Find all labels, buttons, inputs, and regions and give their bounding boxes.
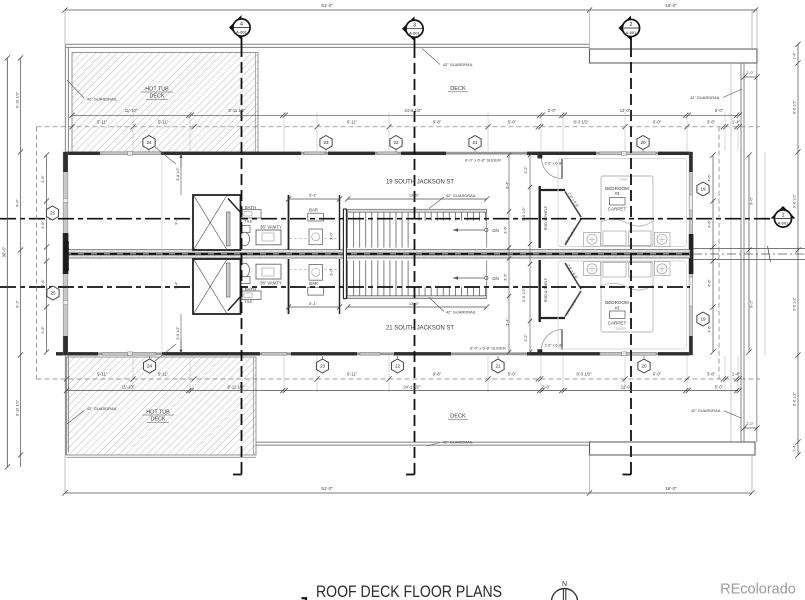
lower bar wall [339, 259, 341, 314]
svg-text:8'-0" x 6'-8" SLIDER: 8'-0" x 6'-8" SLIDER [470, 345, 506, 350]
svg-text:21: 21 [472, 140, 478, 145]
svg-text:9'-8": 9'-8" [433, 119, 442, 124]
svg-text:5'-0": 5'-0" [508, 119, 517, 124]
svg-text:5'-1": 5'-1" [309, 193, 318, 198]
upper shaft X brace [194, 196, 227, 249]
svg-text:6'-11": 6'-11" [347, 372, 358, 377]
upper vanity [256, 230, 281, 245]
upper nightstand left [584, 233, 601, 247]
svg-text:DECK: DECK [450, 413, 466, 419]
left dim line 3 [46, 155, 48, 352]
svg-text:9'-0": 9'-0" [749, 197, 754, 205]
upper stair treads left [347, 212, 349, 247]
upper entry door jamb [537, 155, 541, 159]
upper bar dim [289, 198, 340, 200]
svg-text:3'-8 1/2": 3'-8 1/2" [176, 326, 180, 340]
lower shaft dim [180, 314, 182, 352]
right 2ft dim bottom [744, 427, 757, 429]
top-right deck bench [590, 49, 758, 63]
svg-text:A-601: A-601 [778, 220, 789, 225]
upper shaft-bath wall [227, 212, 231, 246]
window tag 24 leader arrow [155, 147, 176, 164]
upper nightstand right [655, 233, 671, 247]
lower shaft-bath wall [227, 263, 231, 297]
svg-text:23: 23 [323, 140, 329, 145]
lower vanity [256, 264, 281, 279]
upper bedroom bed [601, 176, 653, 246]
svg-text:CARPET: CARPET [608, 206, 627, 211]
svg-text:HOT TUB: HOT TUB [146, 410, 170, 416]
svg-text:4'-6": 4'-6" [41, 326, 45, 334]
party wall center beam [65, 253, 690, 256]
upper unit centerline [0, 218, 770, 220]
lower toilet [240, 277, 251, 284]
right setback dashed line [718, 127, 720, 379]
svg-text:25: 25 [50, 211, 56, 216]
upper closet bifold doors [565, 192, 581, 218]
svg-text:25: 25 [50, 291, 56, 296]
upper stair DN arrow [453, 229, 484, 231]
svg-text:9'-4": 9'-4" [506, 181, 510, 189]
interior dim line 3-2 [529, 155, 531, 352]
svg-text:8'-0" x 6'-8" SLIDER: 8'-0" x 6'-8" SLIDER [465, 158, 501, 163]
bottom deck guardrail [256, 441, 590, 443]
svg-text:12'-0": 12'-0" [621, 384, 632, 389]
svg-text:DECK: DECK [150, 94, 165, 100]
svg-text:5'-11": 5'-11" [97, 119, 108, 124]
svg-text:4'-6": 4'-6" [708, 279, 712, 287]
upper bar wall [339, 195, 341, 250]
top wall windows [100, 152, 161, 155]
left deck edge upper [64, 44, 66, 152]
lower bedroom carpet border [558, 261, 687, 349]
top wall base [65, 152, 690, 155]
bottom wall windows [102, 352, 156, 355]
lower bath door [228, 295, 242, 311]
window tag hexagon 23 bottom [316, 359, 328, 373]
lower plumbing dashed line [289, 269, 339, 271]
upper shaft dim [180, 155, 182, 195]
svg-text:2'-6" x 6'-8": 2'-6" x 6'-8" [544, 162, 563, 166]
svg-text:ROOF DECK FLOOR PLANS: ROOF DECK FLOOR PLANS [316, 582, 502, 600]
svg-text:4'-6": 4'-6" [708, 220, 712, 228]
svg-text:A-601: A-601 [236, 29, 247, 34]
bottom dim row 2 [37, 378, 761, 380]
svg-text:12'-0": 12'-0" [620, 108, 631, 113]
svg-text:51'-0": 51'-0" [321, 486, 333, 491]
svg-text:16'-0": 16'-0" [665, 3, 677, 8]
svg-text:9'-2": 9'-2" [14, 300, 19, 308]
svg-text:DECK: DECK [151, 417, 166, 423]
right dim line 1 [712, 155, 714, 352]
section marker 2/A-601 [619, 16, 640, 41]
lower nightstand right [655, 262, 671, 276]
svg-text:2'-0": 2'-0" [746, 422, 754, 426]
lower closet wall [539, 260, 541, 322]
svg-text:3'-6": 3'-6" [504, 273, 508, 281]
bottom wall slider opening [451, 353, 527, 355]
top dim extension lines [64, 10, 66, 44]
svg-text:9'-8": 9'-8" [433, 372, 442, 377]
svg-text:4'-6": 4'-6" [41, 221, 45, 229]
svg-text:5'-1": 5'-1" [309, 301, 318, 306]
svg-text:9'-4": 9'-4" [506, 318, 510, 326]
wall tag hexagon 19 lower [697, 312, 709, 326]
svg-text:9'-10 1/2": 9'-10 1/2" [14, 399, 19, 416]
right wall window panes [689, 195, 692, 210]
svg-text:20: 20 [640, 140, 646, 145]
svg-text:3'-8": 3'-8" [707, 372, 716, 377]
upper closet wall [539, 186, 541, 248]
svg-text:TILE: TILE [244, 299, 253, 304]
north arrow [552, 589, 578, 600]
svg-text:DN: DN [492, 276, 498, 281]
svg-text:1'-4": 1'-4" [732, 372, 741, 377]
section line C [630, 36, 632, 46]
svg-text:2'-0": 2'-0" [746, 71, 754, 75]
left dim line 2 [20, 58, 22, 467]
svg-text:ROD & SHELF: ROD & SHELF [544, 205, 548, 230]
svg-text:N: N [562, 581, 567, 588]
svg-text:3'-6": 3'-6" [504, 226, 508, 234]
svg-text:3'-0": 3'-0" [330, 232, 334, 240]
upper bath door [228, 199, 242, 215]
window tag hexagon 24 bottom [143, 359, 155, 373]
window tag hexagon 20 top [637, 136, 649, 150]
svg-text:20: 20 [641, 364, 647, 369]
svg-text:BAR: BAR [309, 281, 318, 286]
svg-text:24'-1 1/2": 24'-1 1/2" [403, 384, 421, 389]
svg-text:2'-0": 2'-0" [542, 384, 551, 389]
window tag 24 leader arrow bottom [155, 344, 176, 361]
interior dim line 9-4 [508, 155, 510, 352]
window tag hexagon 23 top [320, 136, 332, 150]
bottom wall base [56, 352, 690, 355]
svg-text:13'-9": 13'-9" [409, 301, 420, 306]
svg-text:5'-6 1/2": 5'-6 1/2" [522, 287, 526, 302]
svg-text:2'-0": 2'-0" [548, 108, 557, 113]
svg-text:42" GUARDRAIL: 42" GUARDRAIL [690, 95, 721, 100]
upper plumbing dashed line [289, 238, 339, 240]
svg-text:6'-0": 6'-0" [653, 119, 662, 124]
bottom dim extension lines [64, 456, 66, 494]
svg-text:24'-9 1/2": 24'-9 1/2" [404, 108, 422, 113]
svg-text:8'-3 1/2": 8'-3 1/2" [577, 372, 593, 377]
window tag hexagon 22 bottom [391, 359, 403, 373]
svg-text:9'-10 1/2": 9'-10 1/2" [14, 91, 19, 108]
svg-text:9'-4": 9'-4" [175, 217, 179, 225]
right wall dark block [689, 234, 694, 274]
svg-text:8'-3 1/2": 8'-3 1/2" [574, 119, 590, 124]
left wall dark block [63, 233, 69, 274]
lower entry door [542, 330, 563, 351]
svg-text:BEDROOM: BEDROOM [605, 300, 629, 305]
section line B [414, 37, 416, 47]
bottom overall dim line [65, 492, 752, 494]
svg-text:A-601: A-601 [409, 31, 420, 36]
svg-text:1'-4": 1'-4" [732, 119, 741, 124]
upper stair dim [348, 198, 487, 200]
upper shaft box [193, 195, 241, 250]
svg-text:42" GUARDRAIL: 42" GUARDRAIL [691, 408, 722, 413]
svg-text:19: 19 [700, 317, 706, 322]
svg-text:1'-4": 1'-4" [793, 52, 797, 60]
svg-text:5'-11": 5'-11" [158, 372, 169, 377]
svg-text:42" GUARDRAIL: 42" GUARDRAIL [443, 62, 474, 67]
party wall band [65, 250, 690, 258]
upper entry door [542, 158, 563, 179]
section marker 4/A-601 [229, 15, 250, 40]
lower stair treads left [347, 260, 349, 295]
svg-text:9'-4": 9'-4" [175, 281, 179, 289]
svg-text:3'-8 1/2": 3'-8 1/2" [176, 167, 180, 181]
top dim row 2 [37, 126, 761, 128]
svg-text:42" GUARDRAIL: 42" GUARDRAIL [87, 406, 118, 411]
svg-text:8'-6 1/2": 8'-6 1/2" [793, 99, 797, 114]
svg-text:16'-0": 16'-0" [665, 486, 677, 491]
right 2ft dim top [744, 76, 757, 78]
svg-text:21: 21 [495, 364, 501, 369]
svg-text:19 SOUTH JACKSON ST: 19 SOUTH JACKSON ST [386, 178, 454, 185]
svg-text:KING: KING [620, 177, 628, 181]
svg-text:6'-11": 6'-11" [347, 119, 358, 124]
svg-text:4'-6": 4'-6" [41, 175, 45, 183]
svg-text:REcolorado: REcolorado [720, 582, 796, 598]
left wall window panes [63, 199, 68, 203]
svg-text:9'-0": 9'-0" [14, 199, 19, 207]
svg-text:42" GUARDRAIL: 42" GUARDRAIL [443, 440, 474, 445]
svg-text:9'-6 1/2": 9'-6 1/2" [793, 193, 797, 208]
svg-text:8'-11 1/2": 8'-11 1/2" [228, 384, 245, 389]
lower closet bifold doors [565, 291, 581, 317]
window tag hexagon 22 top [390, 136, 402, 150]
upper bath tub [242, 210, 261, 219]
upper toilet [240, 226, 251, 233]
top dim extension verticals [132, 112, 134, 151]
svg-text:5'-0": 5'-0" [715, 108, 724, 113]
svg-text:3'-2": 3'-2" [524, 334, 528, 342]
svg-text:DECK: DECK [450, 86, 466, 92]
top wall dark segments [65, 152, 100, 155]
svg-text:1'-4": 1'-4" [793, 444, 797, 452]
top dim row 1 [72, 114, 738, 116]
lower stair side wall [343, 209, 346, 299]
svg-text:11'-10": 11'-10" [125, 108, 138, 113]
window tag hexagon 20 bottom [638, 359, 650, 373]
window tag hexagon 21 top [469, 136, 481, 150]
right wall base [689, 152, 692, 355]
right dim line 2 [748, 155, 750, 352]
right deck guardrail [740, 63, 742, 442]
svg-text:36'-6": 36'-6" [1, 246, 6, 257]
hot tub deck hatch top-left [72, 53, 258, 153]
right dim line 3 [797, 44, 799, 455]
bottom dim row 1 [67, 390, 739, 392]
wall tag hexagon 25 lower [47, 286, 59, 300]
lower bar dim [289, 306, 340, 308]
svg-text:2'-6" x 6'-8": 2'-6" x 6'-8" [544, 344, 563, 348]
window tag hexagon 21 bottom [492, 359, 504, 373]
svg-text:42" GUARDRAIL: 42" GUARDRAIL [446, 310, 477, 315]
svg-text:9'-6 1/2": 9'-6 1/2" [793, 296, 797, 311]
svg-text:#3: #3 [615, 191, 620, 196]
svg-text:6'-0": 6'-0" [653, 372, 662, 377]
svg-text:24: 24 [147, 364, 153, 369]
svg-text:5'-11": 5'-11" [97, 372, 108, 377]
top wall slider opening [446, 152, 527, 154]
lower shaft X brace [194, 260, 227, 313]
svg-text:24: 24 [146, 140, 152, 145]
svg-text:3'-8": 3'-8" [707, 119, 716, 124]
svg-text:5'-0": 5'-0" [715, 384, 724, 389]
bottom wall dark segments [56, 352, 98, 355]
party wall right extension [693, 248, 805, 250]
svg-text:3: 3 [413, 23, 416, 29]
svg-text:2: 2 [630, 22, 633, 28]
lower stair DN arrow [453, 277, 484, 279]
svg-text:3'-0": 3'-0" [330, 268, 334, 276]
svg-text:8'-11 1/2": 8'-11 1/2" [229, 108, 246, 113]
svg-text:CARPET: CARPET [608, 321, 627, 326]
svg-text:4'-6": 4'-6" [41, 279, 45, 287]
upper bedroom carpet border [558, 159, 687, 247]
right deck inner line [730, 63, 732, 442]
svg-text:36" VANITY: 36" VANITY [260, 224, 282, 229]
top deck guardrail [66, 43, 590, 45]
svg-text:11'-10": 11'-10" [122, 384, 135, 389]
left deck edge lower [64, 355, 66, 456]
section line A [241, 36, 243, 46]
svg-text:42" GUARDRAIL: 42" GUARDRAIL [87, 97, 118, 102]
svg-text:#3: #3 [615, 305, 620, 310]
lower stair treads right [418, 287, 420, 295]
svg-text:22: 22 [393, 140, 399, 145]
upper bath walls [288, 195, 290, 250]
svg-text:19: 19 [700, 187, 706, 192]
svg-text:36" VANITY: 36" VANITY [260, 280, 282, 285]
svg-text:4'-6": 4'-6" [708, 174, 712, 182]
window tag hexagon 24 top [143, 136, 155, 150]
top overall dim line [65, 9, 757, 11]
svg-text:5'-11": 5'-11" [158, 119, 169, 124]
svg-text:QUEEN: QUEEN [616, 326, 627, 330]
lower bath tub [242, 291, 261, 300]
interior extension line [161, 156, 163, 353]
svg-text:21 SOUTH JACKSON ST: 21 SOUTH JACKSON ST [386, 324, 454, 331]
svg-text:A-601: A-601 [626, 30, 637, 35]
bottom dim extension verticals [132, 356, 134, 392]
title scale mark [302, 598, 307, 600]
lower bedroom bed [601, 262, 653, 332]
svg-text:DN: DN [492, 228, 498, 233]
svg-text:8'-6 1/2": 8'-6 1/2" [793, 391, 797, 406]
lower shaft box [193, 259, 241, 314]
bottom-right deck bench [590, 442, 756, 455]
svg-text:13'-9": 13'-9" [409, 193, 420, 198]
svg-text:51'-0": 51'-0" [321, 3, 333, 8]
svg-text:BAR: BAR [309, 207, 318, 212]
svg-text:5'-0": 5'-0" [508, 372, 517, 377]
svg-text:3'-2": 3'-2" [524, 166, 528, 174]
svg-text:22: 22 [395, 364, 401, 369]
svg-text:42" GUARDRAIL: 42" GUARDRAIL [446, 193, 477, 198]
svg-text:4: 4 [240, 22, 243, 28]
svg-text:ROD & SHELF: ROD & SHELF [544, 277, 548, 302]
svg-text:HOT TUB: HOT TUB [145, 87, 169, 93]
lower stair dim [348, 306, 487, 308]
lower bath walls [288, 259, 290, 314]
left wall base [63, 152, 68, 355]
svg-text:4'-6": 4'-6" [708, 325, 712, 333]
lower nightstand left [584, 262, 601, 276]
lower unit centerline [0, 286, 690, 288]
wall tag hexagon 19 upper [697, 182, 709, 196]
section marker 3/A-601 [402, 16, 423, 41]
upper stair guardrail [348, 209, 487, 212]
left setback dashed line [36, 127, 38, 379]
section marker 1/A-601 [771, 206, 796, 227]
svg-text:5'-6 1/2": 5'-6 1/2" [522, 206, 526, 221]
left overall dim line [6, 58, 8, 467]
svg-text:23: 23 [320, 364, 326, 369]
svg-text:1: 1 [782, 213, 785, 219]
lower entry door jamb [537, 349, 541, 353]
hot tub deck hatch bottom-left [67, 357, 257, 455]
svg-text:9'-2": 9'-2" [749, 300, 754, 308]
right deck edge [756, 63, 758, 442]
wall tag hexagon 25 upper [46, 206, 58, 220]
upper stair treads right [418, 212, 420, 220]
lower stair guardrail [348, 296, 487, 299]
party wall left cap [64, 241, 69, 271]
